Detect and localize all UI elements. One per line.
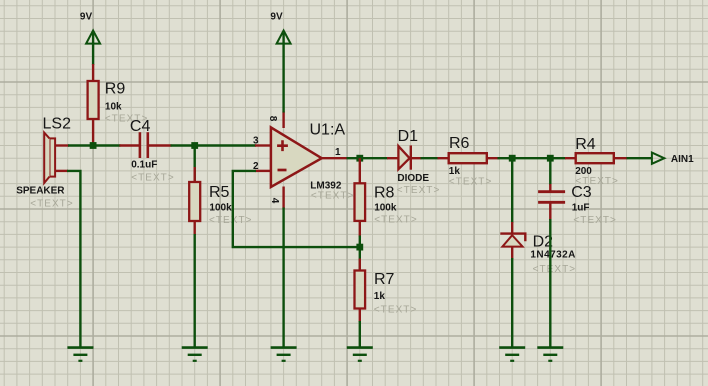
svg-text:9V: 9V xyxy=(270,11,283,22)
resistor R6 xyxy=(438,135,499,188)
node E junction (R6/D2/C3) xyxy=(509,155,516,162)
svg-text:R7: R7 xyxy=(374,271,395,288)
svg-text:<TEXT>: <TEXT> xyxy=(209,215,253,226)
svg-text:10k: 10k xyxy=(105,102,122,113)
speaker LS2 xyxy=(16,115,74,209)
wire pin 4 to ground xyxy=(282,208,284,348)
wire node C to D1 xyxy=(360,157,388,159)
svg-text:1N4732A: 1N4732A xyxy=(530,250,575,261)
node B junction (C4/R5/pin3) xyxy=(191,142,198,149)
wire node E down to D2 xyxy=(511,158,513,223)
svg-text:<TEXT>: <TEXT> xyxy=(397,185,441,196)
svg-text:4: 4 xyxy=(269,198,280,204)
svg-text:SPEAKER: SPEAKER xyxy=(16,186,65,197)
ground (R5) xyxy=(182,348,208,361)
wire feedback net (pin2 to R8/R7 node) xyxy=(233,171,361,247)
wire 9V1 to R9 xyxy=(92,44,94,65)
svg-text:0.1uF: 0.1uF xyxy=(131,160,157,171)
node A junction (R9/speaker/C4) xyxy=(90,142,97,149)
svg-text:1uF: 1uF xyxy=(572,203,590,214)
capacitor C4 xyxy=(120,118,175,184)
terminal AIN1 xyxy=(652,153,694,165)
svg-text:<TEXT>: <TEXT> xyxy=(449,176,493,187)
resistor R5 xyxy=(189,146,252,236)
node C junction (pin1/R8/D1) xyxy=(356,155,363,162)
resistor R4 xyxy=(565,136,628,187)
svg-text:8: 8 xyxy=(267,116,278,122)
wire speaker bottom to ground xyxy=(67,171,80,348)
svg-text:R8: R8 xyxy=(374,184,395,201)
wire D1 to R6 xyxy=(421,157,439,159)
svg-text:AIN1: AIN1 xyxy=(671,154,694,165)
svg-text:<TEXT>: <TEXT> xyxy=(131,173,175,184)
wire R7 to ground xyxy=(359,321,361,348)
node D junction (R8/R7/feedback) xyxy=(356,244,363,251)
svg-text:<TEXT>: <TEXT> xyxy=(533,264,577,275)
wire node E to node F xyxy=(512,157,550,159)
ground (D2) xyxy=(499,348,525,361)
svg-text:<TEXT>: <TEXT> xyxy=(573,215,617,226)
svg-text:<TEXT>: <TEXT> xyxy=(374,305,418,316)
op-amp pin 3 xyxy=(253,135,271,146)
wire node A to C4 xyxy=(93,144,120,146)
wire R4 to terminal AIN1 xyxy=(627,157,652,159)
power 9V supply 1 xyxy=(80,11,100,43)
wire R5 to ground xyxy=(193,234,195,348)
ground (speaker) xyxy=(67,348,93,361)
ground (C3) xyxy=(537,348,563,361)
wire node F to R4 xyxy=(550,157,566,159)
svg-text:U1:A: U1:A xyxy=(310,121,346,138)
wire R8 to node D xyxy=(359,236,361,249)
svg-text:3: 3 xyxy=(253,135,259,146)
node F junction (C3/R4) xyxy=(547,155,554,162)
wire R6 to node E xyxy=(498,157,513,159)
resistor R9 xyxy=(88,64,149,144)
zener diode D2 xyxy=(500,222,576,275)
svg-text:9V: 9V xyxy=(80,11,93,22)
svg-text:R6: R6 xyxy=(449,135,470,152)
svg-text:D1: D1 xyxy=(398,128,419,145)
ground (R7) xyxy=(347,348,373,361)
svg-text:<TEXT>: <TEXT> xyxy=(311,191,355,202)
wire C3 to ground xyxy=(549,219,551,348)
svg-text:LS2: LS2 xyxy=(43,115,72,132)
svg-text:DIODE: DIODE xyxy=(397,173,429,184)
wire speaker to node A xyxy=(68,144,94,146)
svg-text:100k: 100k xyxy=(374,203,397,214)
svg-text:100k: 100k xyxy=(209,203,232,214)
ground (op-amp pin 4) xyxy=(271,348,297,361)
op-amp pin 2 xyxy=(253,161,271,172)
svg-text:1: 1 xyxy=(335,147,341,158)
svg-text:<TEXT>: <TEXT> xyxy=(374,215,418,226)
diode D1 xyxy=(387,128,440,196)
svg-text:R4: R4 xyxy=(575,136,596,153)
svg-text:1k: 1k xyxy=(374,291,386,302)
wire 9V2 to pin 8 xyxy=(282,44,284,113)
svg-text:<TEXT>: <TEXT> xyxy=(575,176,619,187)
op-amp U1:A xyxy=(267,112,355,209)
wire D2 to ground xyxy=(511,258,513,348)
svg-text:<TEXT>: <TEXT> xyxy=(30,199,74,210)
capacitor C3 xyxy=(538,184,617,226)
svg-text:R5: R5 xyxy=(209,184,230,201)
resistor R8 xyxy=(355,158,418,236)
resistor R7 xyxy=(355,247,418,322)
power 9V supply 2 xyxy=(270,11,290,43)
svg-text:1k: 1k xyxy=(449,166,461,177)
svg-text:R9: R9 xyxy=(105,81,126,98)
wire pin1 to node C xyxy=(347,157,360,159)
wire node F down to C3 xyxy=(549,158,551,185)
wire C4 to node B xyxy=(171,144,257,146)
